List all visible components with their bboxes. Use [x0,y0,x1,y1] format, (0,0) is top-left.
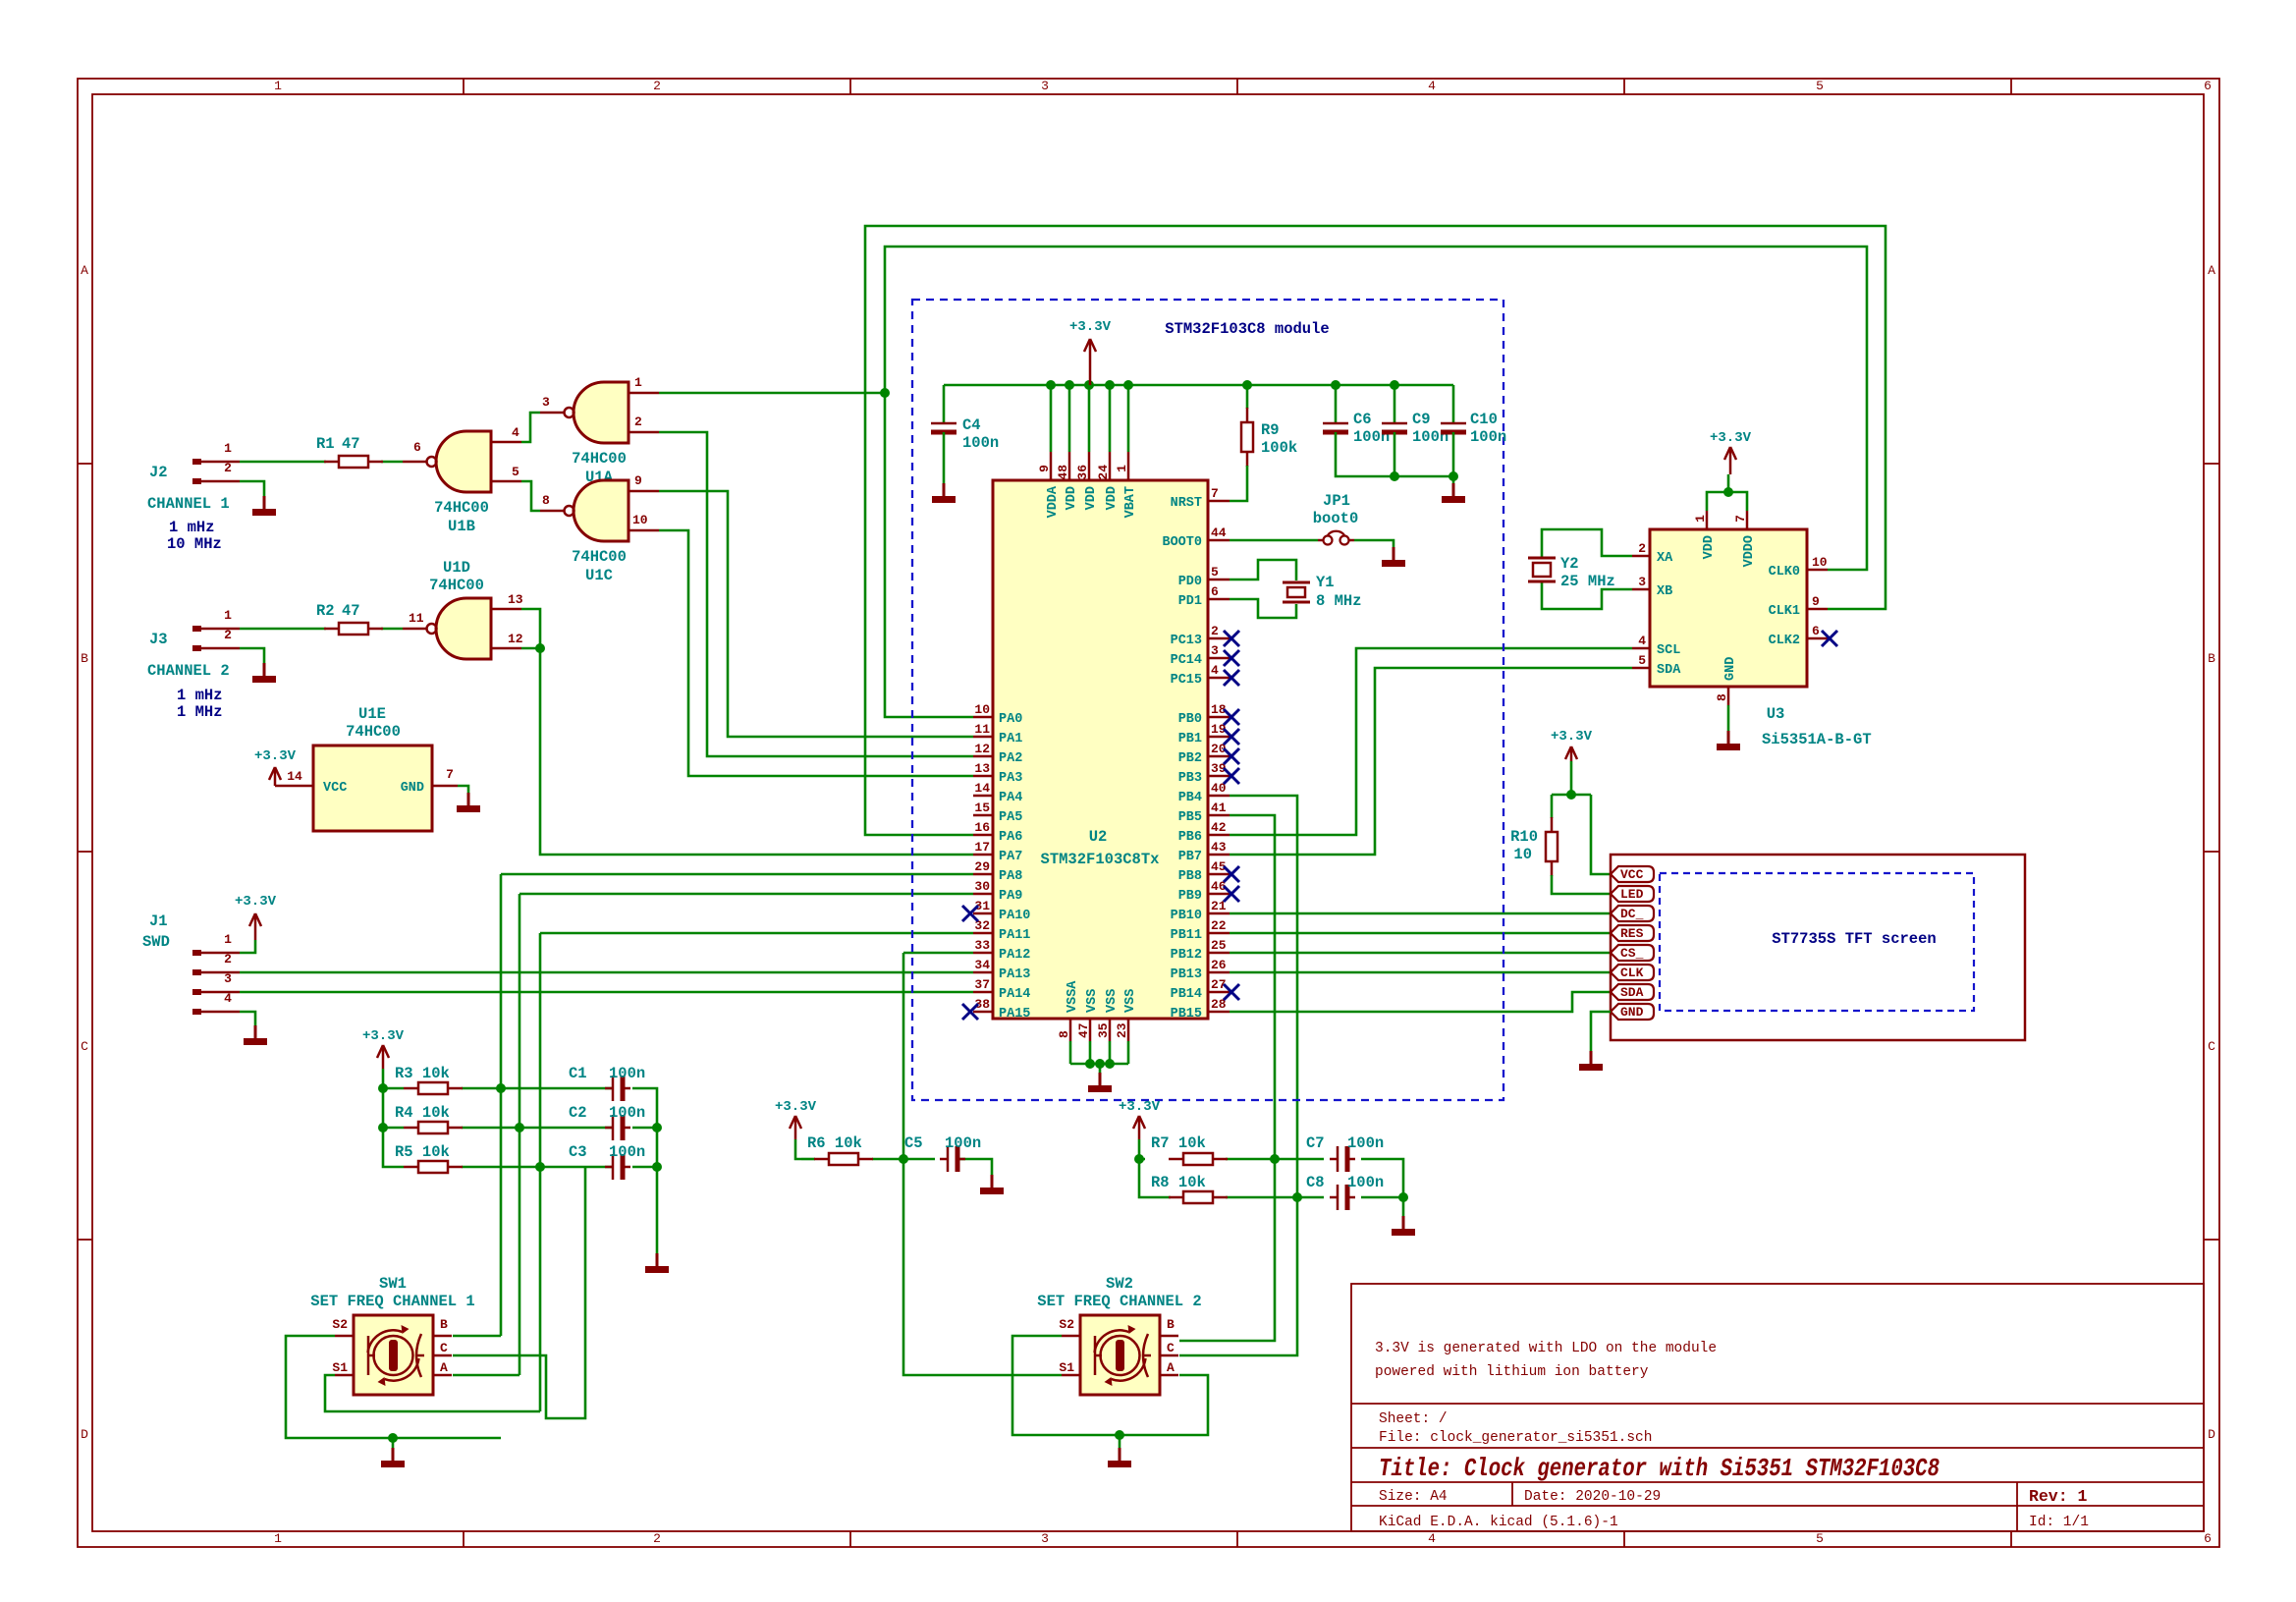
capacitor C8 100n [1306,1174,1384,1210]
svg-text:3: 3 [1638,575,1646,589]
svg-text:VCC: VCC [323,781,347,796]
rotary switch SW1 SET FREQ CHANNEL 1 [310,1275,474,1395]
svg-text:C7: C7 [1306,1134,1325,1152]
ground at U2 VSS [1088,1073,1112,1092]
IC U3 Si5351A-B-GT [1632,511,1872,748]
svg-text:5: 5 [1816,79,1824,93]
svg-text:PA3: PA3 [999,771,1022,786]
svg-text:4: 4 [224,991,232,1006]
ground at C3 rail [645,1253,669,1273]
power +3.3V above U2 [1069,319,1112,385]
svg-text:3: 3 [224,971,232,986]
svg-text:S2: S2 [1059,1317,1074,1332]
wire J1 pin4 to ground [240,1012,255,1025]
svg-text:D: D [2208,1427,2215,1442]
svg-text:U1B: U1B [448,518,475,535]
svg-text:SDA: SDA [1620,985,1644,1000]
svg-text:23: 23 [1115,1022,1129,1038]
svg-text:VDDA: VDDA [1046,485,1061,518]
svg-text:CLK2: CLK2 [1769,634,1800,648]
svg-text:47: 47 [1076,1022,1091,1038]
svg-text:+3.3V: +3.3V [775,1099,817,1115]
svg-text:VSSA: VSSA [1066,980,1080,1013]
svg-text:R6 10k: R6 10k [807,1134,862,1152]
wire SW1 S2 to ground run [286,1336,501,1448]
svg-text:VCC: VCC [1620,867,1644,882]
svg-text:PB4: PB4 [1178,791,1202,805]
wire C1 C2 C3 ground rail [632,1088,662,1253]
wire R6 C5 to PA12 and SW2 S1 [801,953,1062,1375]
svg-text:10: 10 [974,702,990,717]
svg-text:1: 1 [1693,515,1708,523]
svg-text:PB3: PB3 [1178,771,1202,786]
resistor R10 10 [1510,817,1558,876]
svg-text:1: 1 [224,441,232,456]
wire J1 pin1 to power [240,940,255,953]
svg-text:GND: GND [1723,657,1738,681]
ground at U3 [1717,731,1740,750]
svg-text:6: 6 [2204,1531,2212,1546]
svg-text:1: 1 [224,932,232,947]
svg-text:VDD: VDD [1084,486,1099,510]
svg-text:100n: 100n [609,1065,645,1082]
resistor R3 10k [395,1065,463,1094]
svg-text:+3.3V: +3.3V [254,748,297,764]
resistor R5 10k [395,1143,463,1173]
svg-text:14: 14 [287,769,302,784]
connector J2 CHANNEL 1 [147,441,240,553]
svg-text:10: 10 [632,513,648,527]
capacitor C6 100n [1323,385,1394,476]
capacitor C10 100n [1441,385,1506,483]
svg-text:PC14: PC14 [1171,653,1202,668]
svg-text:B: B [81,651,88,666]
wire 3.3V to R7 R8 [1139,1139,1145,1159]
svg-text:3: 3 [1211,643,1219,658]
connector J3 CHANNEL 2 [147,608,240,721]
capacitor C5 100n [904,1134,981,1172]
no-connect marks on U2 unused pins [962,631,1239,1020]
svg-text:1: 1 [274,1531,282,1546]
svg-text:2: 2 [653,79,661,93]
svg-text:9: 9 [634,473,642,488]
wire J2 pin2 to ground [240,481,264,496]
svg-text:S2: S2 [332,1317,348,1332]
svg-text:3: 3 [1041,79,1049,93]
svg-text:VDD: VDD [1065,486,1079,510]
svg-text:5: 5 [512,465,519,479]
svg-text:13: 13 [508,592,523,607]
wire J3 pin1 to R2 to U1D pin11 [240,628,403,631]
svg-text:U1C: U1C [585,567,613,584]
svg-text:SCL: SCL [1657,643,1680,658]
svg-text:Title: Clock generator with Si: Title: Clock generator with Si5351 STM32… [1379,1454,1940,1483]
wire 3.3V to R3 R4 R5 [378,1069,404,1167]
svg-text:boot0: boot0 [1313,510,1359,527]
svg-text:36: 36 [1075,465,1090,480]
svg-text:1 mHz: 1 mHz [169,519,215,536]
svg-text:R4 10k: R4 10k [395,1104,450,1122]
svg-text:JP1: JP1 [1323,492,1350,510]
svg-text:74HC00: 74HC00 [572,450,627,468]
ground at J1 [244,1025,267,1045]
svg-text:VDD: VDD [1105,486,1120,510]
svg-text:37: 37 [974,977,990,992]
svg-text:R7 10k: R7 10k [1151,1134,1206,1152]
svg-text:16: 16 [974,820,990,835]
svg-text:2: 2 [1211,624,1219,638]
connector J1 SWD [142,912,240,1015]
svg-text:Y1: Y1 [1316,574,1335,591]
svg-text:SWD: SWD [142,933,170,951]
svg-text:Rev: 1: Rev: 1 [2029,1487,2088,1506]
svg-text:R3 10k: R3 10k [395,1065,450,1082]
wire R8 C8 to PB4 and SW2 C [1134,796,1408,1355]
svg-text:C4: C4 [962,416,981,434]
svg-text:CHANNEL 1: CHANNEL 1 [147,495,230,513]
wire SW1 A to R4 net [453,1374,519,1377]
svg-text:2: 2 [653,1531,661,1546]
svg-text:GND: GND [401,781,424,796]
svg-text:3.3V is generated with LDO on: 3.3V is generated with LDO on the module [1375,1341,1717,1356]
svg-text:1: 1 [274,79,282,93]
svg-text:74HC00: 74HC00 [572,548,627,566]
capacitor C4 100n [931,385,999,483]
svg-text:VSS: VSS [1105,989,1120,1013]
svg-text:74HC00: 74HC00 [429,577,484,594]
svg-text:PA2: PA2 [999,751,1022,766]
svg-text:Id: 1/1: Id: 1/1 [2029,1515,2089,1530]
capacitor C7 100n [1306,1134,1384,1172]
svg-text:BOOT0: BOOT0 [1162,535,1202,550]
svg-text:+3.3V: +3.3V [235,894,277,910]
svg-text:+3.3V: +3.3V [1069,319,1112,335]
jumper JP1 boot0 [1230,492,1358,545]
svg-text:PA0: PA0 [999,712,1022,727]
svg-text:4: 4 [512,425,519,440]
wire U3 GND [1727,705,1730,731]
svg-text:PA12: PA12 [999,948,1030,963]
svg-text:PA10: PA10 [999,909,1030,923]
svg-text:1 MHz: 1 MHz [177,703,223,721]
ground at SW2 [1108,1448,1131,1467]
resistor R8 10k [1151,1174,1228,1203]
svg-text:KiCad E.D.A. kicad (5.1.6)-1: KiCad E.D.A. kicad (5.1.6)-1 [1379,1515,1618,1530]
ground at C5 [980,1175,1004,1194]
svg-text:CS_: CS_ [1620,946,1644,961]
svg-text:D: D [81,1427,88,1442]
svg-text:GND: GND [1620,1005,1644,1020]
op-amp U1A 74HC00 gate [540,375,659,486]
svg-text:30: 30 [974,879,990,894]
capacitor C3 100n [569,1143,645,1180]
svg-text:43: 43 [1211,840,1227,855]
svg-text:XB: XB [1657,584,1672,599]
svg-text:PA9: PA9 [999,889,1022,904]
svg-text:RES: RES [1620,926,1644,941]
svg-text:C: C [1167,1341,1175,1355]
svg-text:5: 5 [1638,653,1646,668]
resistor R7 10k [1151,1134,1228,1165]
svg-text:VDD: VDD [1702,535,1717,559]
wire R5 C3 to PA11 and SW1 S1 [462,933,973,1411]
ground at C4 [932,483,956,503]
svg-text:ST7735S TFT screen: ST7735S TFT screen [1772,930,1936,948]
svg-text:CLK0: CLK0 [1769,565,1800,580]
wire U1D output to PA7 [521,609,973,855]
svg-text:4: 4 [1428,79,1436,93]
svg-text:100n: 100n [609,1104,645,1122]
svg-text:U1E: U1E [358,705,386,723]
svg-text:41: 41 [1211,801,1227,815]
svg-text:1: 1 [1115,465,1129,472]
svg-text:CLK1: CLK1 [1769,604,1800,619]
svg-text:6: 6 [413,440,421,455]
svg-text:PA15: PA15 [999,1007,1030,1022]
svg-text:8: 8 [1715,693,1729,701]
svg-text:13: 13 [974,761,990,776]
svg-text:PB13: PB13 [1171,967,1202,982]
svg-text:PA13: PA13 [999,967,1030,982]
svg-text:29: 29 [974,859,990,874]
svg-text:DC_: DC_ [1620,907,1644,921]
display module ST7735S TFT screen [1611,855,2025,1040]
svg-text:9: 9 [1037,465,1052,472]
svg-text:PB8: PB8 [1178,869,1202,884]
svg-text:R9: R9 [1261,421,1280,439]
svg-text:S1: S1 [332,1360,348,1375]
svg-text:J2: J2 [149,464,168,481]
svg-text:PB12: PB12 [1171,948,1202,963]
svg-text:2: 2 [224,628,232,642]
svg-text:11: 11 [974,722,990,737]
svg-text:U1D: U1D [443,559,470,577]
svg-text:VSS: VSS [1085,989,1100,1013]
svg-text:PB2: PB2 [1178,751,1202,766]
svg-text:100n: 100n [945,1134,981,1152]
svg-text:14: 14 [974,781,990,796]
svg-text:PB15: PB15 [1171,1007,1202,1022]
svg-text:R5 10k: R5 10k [395,1143,450,1161]
resistor R2 47 [316,602,383,635]
svg-text:U2: U2 [1089,828,1108,846]
svg-text:35: 35 [1096,1022,1111,1038]
svg-text:A: A [2208,263,2215,278]
wire PB15 to TFT SDA [1230,992,1611,1012]
IC U2 STM32F103C8Tx [973,452,1230,1041]
svg-text:+3.3V: +3.3V [362,1028,405,1044]
svg-text:10: 10 [1513,846,1532,863]
resistor R1 47 [316,435,383,468]
op-amp U1B 74HC00 gate [403,425,521,535]
svg-text:6: 6 [2204,79,2212,93]
svg-text:R2: R2 [316,602,335,620]
svg-text:3: 3 [542,395,550,410]
svg-text:CHANNEL 2: CHANNEL 2 [147,662,230,680]
svg-text:5: 5 [1816,1531,1824,1546]
svg-text:C: C [2208,1039,2215,1054]
svg-text:+3.3V: +3.3V [1710,430,1752,446]
wire J2 pin1 to R1 to U1B pin6 [240,461,403,464]
svg-text:SW1: SW1 [379,1275,407,1293]
svg-text:J1: J1 [149,912,168,930]
svg-text:100n: 100n [1347,1174,1384,1191]
svg-text:C8: C8 [1306,1174,1325,1191]
wire PB12 to TFT CS_ [1230,952,1611,955]
svg-text:A: A [81,263,88,278]
wire SW1 S1 [325,1375,540,1411]
wire U2 VSS pins to ground [1070,1041,1128,1073]
power +3.3V at U3 [1710,430,1752,474]
svg-text:42: 42 [1211,820,1227,835]
svg-text:47: 47 [342,602,360,620]
wire R10 to TFT LED [1552,875,1611,894]
resistor R4 10k [395,1104,463,1133]
svg-text:VSS: VSS [1123,989,1138,1013]
svg-text:6: 6 [1812,624,1820,638]
svg-text:+3.3V: +3.3V [1119,1099,1161,1115]
svg-text:100n: 100n [1470,428,1506,446]
svg-text:PB9: PB9 [1178,889,1202,904]
op-amp U1E 74HC00 power unit [275,705,458,831]
svg-text:9: 9 [1812,594,1820,609]
svg-text:2: 2 [634,414,642,429]
svg-text:PB7: PB7 [1178,850,1202,864]
svg-text:NRST: NRST [1171,496,1202,511]
svg-text:File: clock_generator_si5351.s: File: clock_generator_si5351.sch [1379,1430,1652,1446]
wire SW2 S2 and A to ground [1012,1336,1208,1448]
svg-text:25 MHz: 25 MHz [1560,573,1615,590]
svg-text:44: 44 [1211,525,1227,540]
wire SCL from PB6 [1230,648,1632,835]
svg-text:PA8: PA8 [999,869,1022,884]
svg-text:Size: A4: Size: A4 [1379,1489,1448,1505]
svg-text:PD1: PD1 [1178,594,1202,609]
wire U1C pin9 to PA1 [659,491,973,737]
wire U1C pin10 to PA3 [659,530,973,776]
svg-text:PA4: PA4 [999,791,1022,805]
svg-text:47: 47 [342,435,360,453]
wire TFT GND [1591,1012,1611,1051]
op-amp U1C 74HC00 gate [540,473,659,584]
wire CLK0 to PA0 and U1A pin1 [659,247,1867,717]
svg-text:XA: XA [1657,551,1673,566]
svg-text:74HC00: 74HC00 [346,723,401,741]
wire 3.3V to R10 and TFT VCC [1552,761,1611,874]
svg-text:PB14: PB14 [1171,987,1202,1002]
svg-text:+3.3V: +3.3V [1551,729,1593,745]
svg-text:Si5351A-B-GT: Si5351A-B-GT [1762,731,1872,748]
wire JP1 to ground [1354,540,1394,547]
svg-text:S1: S1 [1059,1360,1074,1375]
svg-text:B: B [440,1317,448,1332]
svg-text:A: A [440,1360,448,1375]
svg-text:A: A [1167,1360,1175,1375]
svg-text:48: 48 [1056,465,1070,480]
svg-text:C6: C6 [1353,411,1372,428]
svg-text:33: 33 [974,938,990,953]
wire R7 C7 to PB5 and SW2 B [1179,815,1403,1341]
ground at J2 [252,496,276,516]
wire PB13 to TFT CLK [1230,971,1611,974]
svg-text:PB1: PB1 [1178,732,1202,746]
wire 3.3V to R6 [795,1139,801,1159]
svg-text:11: 11 [409,611,424,626]
svg-text:100k: 100k [1261,439,1297,457]
svg-text:2: 2 [224,461,232,475]
crystal Y1 8 MHz [1230,560,1362,618]
svg-text:100n: 100n [962,434,999,452]
svg-text:J3: J3 [149,631,168,648]
svg-text:1 mHz: 1 mHz [177,687,223,704]
svg-text:C: C [440,1341,448,1355]
ground at JP1 [1382,547,1405,567]
svg-text:Y2: Y2 [1560,555,1579,573]
resistor R6 10k [807,1134,873,1165]
wire U1B pin5 to U1C pin8 [521,481,540,511]
svg-text:LED: LED [1620,887,1644,902]
svg-text:2: 2 [224,952,232,967]
svg-text:PB6: PB6 [1178,830,1202,845]
ground at C10 [1442,483,1465,503]
svg-text:PA1: PA1 [999,732,1022,746]
svg-text:Sheet: /: Sheet: / [1379,1411,1448,1427]
svg-text:PC15: PC15 [1171,673,1202,688]
svg-text:2: 2 [1638,541,1646,556]
svg-text:U3: U3 [1767,705,1785,723]
svg-text:C2: C2 [569,1104,587,1122]
svg-text:SET FREQ CHANNEL 2: SET FREQ CHANNEL 2 [1037,1293,1201,1310]
power +3.3V at R3 R4 R5 [362,1028,405,1069]
wire R3 C1 to PA8 and SW1 B [462,874,973,1336]
svg-text:3: 3 [1041,1531,1049,1546]
svg-text:26: 26 [1211,958,1227,972]
svg-text:C9: C9 [1412,411,1431,428]
svg-text:PA11: PA11 [999,928,1030,943]
svg-text:SDA: SDA [1657,663,1681,678]
wire J1 pin2 to PA13 [240,971,973,974]
ground at C8 [1392,1216,1415,1236]
ground at J3 [252,663,276,683]
svg-text:7: 7 [1211,486,1219,501]
capacitor C1 100n [569,1065,645,1101]
svg-text:SET FREQ CHANNEL 1: SET FREQ CHANNEL 1 [310,1293,474,1310]
svg-text:PA7: PA7 [999,850,1022,864]
svg-text:7: 7 [446,767,454,782]
wire J3 pin2 to ground [240,648,264,663]
svg-text:10: 10 [1812,555,1828,570]
svg-text:CLK: CLK [1620,966,1644,980]
ground at SW1 [381,1448,405,1467]
crystal Y2 25 MHz [1528,529,1632,609]
svg-text:VBAT: VBAT [1123,486,1138,518]
svg-text:VDDO: VDDO [1742,535,1757,567]
svg-text:10 MHz: 10 MHz [167,535,222,553]
rotary switch SW2 SET FREQ CHANNEL 2 [1037,1275,1201,1395]
svg-text:C10: C10 [1470,411,1498,428]
svg-text:C1: C1 [569,1065,587,1082]
wire SDA from PB7 [1230,668,1632,855]
svg-text:8: 8 [1057,1030,1071,1038]
svg-text:74HC00: 74HC00 [434,499,489,517]
op-amp U1D 74HC00 gate [403,559,523,659]
power +3.3V at R6 [775,1099,817,1139]
svg-text:B: B [2208,651,2215,666]
svg-text:8: 8 [542,493,550,508]
svg-text:PA5: PA5 [999,810,1022,825]
svg-text:8 MHz: 8 MHz [1316,592,1362,610]
svg-text:C3: C3 [569,1143,587,1161]
